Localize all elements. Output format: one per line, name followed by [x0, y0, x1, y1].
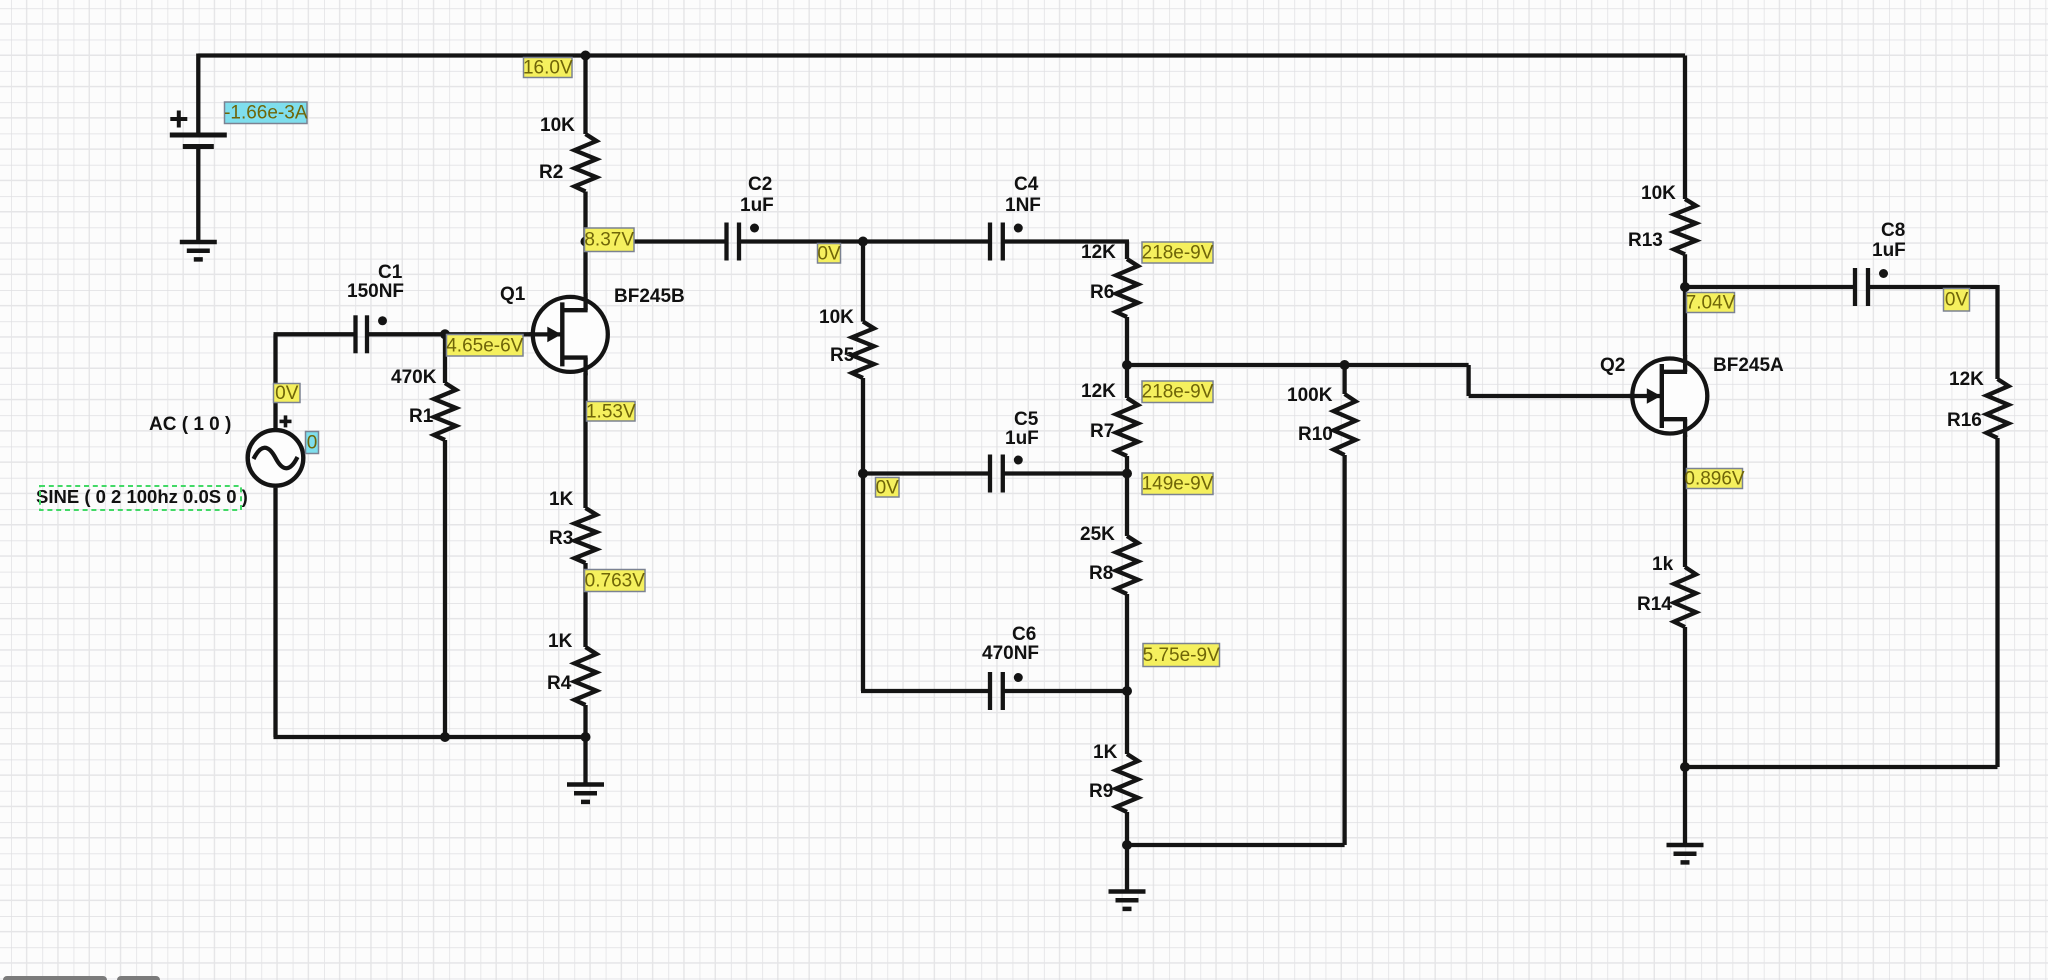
- resistor R1: [434, 383, 456, 440]
- svg-text:BF245A: BF245A: [1713, 355, 1784, 376]
- capacitor C8: [1855, 268, 1888, 306]
- svg-text:10K: 10K: [540, 115, 575, 136]
- wire: gate node to R1: [443, 334, 447, 383]
- wire: C5 node to R8: [1125, 474, 1129, 537]
- resistor R10: [1334, 394, 1356, 455]
- voltage label 218e-9V (R7 top): [1142, 381, 1214, 403]
- svg-text:0V: 0V: [876, 477, 900, 498]
- svg-text:R2: R2: [539, 162, 563, 183]
- svg-text:1K: 1K: [549, 489, 574, 510]
- resistor R14: [1674, 567, 1696, 627]
- svg-text:C5: C5: [1014, 409, 1039, 430]
- label 100K: [1287, 385, 1333, 406]
- capacitor C5: [990, 455, 1023, 493]
- wire: R8 to C6 node: [1125, 594, 1129, 691]
- resistor R5: [852, 322, 874, 378]
- label 10K (R13): [1641, 183, 1676, 204]
- resistor R16: [1987, 379, 2009, 438]
- svg-text:R8: R8: [1089, 563, 1113, 584]
- svg-text:0V: 0V: [817, 243, 841, 264]
- wire: R3 to R4: [583, 563, 587, 647]
- label C2: [748, 174, 772, 195]
- label R9: [1089, 781, 1113, 802]
- resistor R3: [575, 508, 597, 563]
- wire: step down to Q2 gate row: [1466, 365, 1470, 396]
- label R1: [409, 406, 434, 427]
- node: R1 / bottom rail junction: [440, 732, 450, 742]
- svg-text:1uF: 1uF: [1872, 240, 1906, 261]
- label R6: [1090, 282, 1114, 303]
- svg-text:470K: 470K: [391, 367, 437, 388]
- ac source V2: [248, 415, 304, 485]
- svg-text:10K: 10K: [819, 307, 854, 328]
- ground (R14): [1667, 845, 1704, 862]
- node: R4 / bottom rail junction: [581, 732, 591, 742]
- svg-text:150NF: 150NF: [347, 281, 404, 302]
- wire: gate node to Q1 gate: [445, 332, 564, 336]
- label 10K (R2): [540, 115, 575, 136]
- label AC ( 1 0 ): [149, 414, 231, 435]
- wire: Q1 source to R3: [583, 373, 587, 508]
- svg-text:R7: R7: [1090, 421, 1114, 442]
- label C1: [378, 262, 403, 283]
- label Q2: [1600, 355, 1625, 376]
- capacitor C4: [990, 223, 1023, 261]
- wire: node to ground (right): [1683, 767, 1687, 845]
- node: R8/C6/R9 junction: [1122, 686, 1132, 696]
- svg-text:R4: R4: [547, 673, 572, 694]
- wire: C2 to 0V node: [739, 239, 863, 243]
- node: R10 top junction: [1340, 360, 1350, 370]
- svg-text:1uF: 1uF: [1005, 428, 1039, 449]
- voltage label 5.75e-9V: [1143, 644, 1220, 667]
- node: R13/C8/drain junction: [1680, 282, 1690, 292]
- label C6: [1012, 624, 1036, 645]
- voltage label 149e-9V: [1142, 473, 1214, 495]
- label R2: [539, 162, 563, 183]
- svg-text:R3: R3: [549, 528, 573, 549]
- svg-text:C1: C1: [378, 262, 403, 283]
- svg-text:12K: 12K: [1081, 381, 1116, 402]
- svg-text:5.75e-9V: 5.75e-9V: [1143, 645, 1220, 666]
- wire: 8.37V node to C2: [586, 239, 727, 243]
- svg-text:12K: 12K: [1081, 242, 1116, 263]
- svg-text:1K: 1K: [548, 631, 573, 652]
- wire: C5 left lead: [863, 471, 990, 475]
- wire: node to R7: [1125, 365, 1129, 398]
- wire: R14 to bottom-right node: [1683, 627, 1687, 767]
- svg-text:-1.66e-3A: -1.66e-3A: [224, 103, 308, 124]
- label 470K: [391, 367, 437, 388]
- wire: bottom rail R9-R10: [1127, 455, 1345, 845]
- wire: bottom-left rail: [274, 735, 588, 739]
- label 470NF: [982, 643, 1039, 664]
- voltage label 0.763V: [585, 570, 646, 592]
- wire: battery negative to ground: [196, 147, 200, 243]
- label BF245A: [1713, 355, 1784, 376]
- wire: R13 to drain node: [1683, 254, 1687, 356]
- wire: R4 to bottom rail: [583, 705, 587, 737]
- wire: Q2 source to R14: [1683, 435, 1687, 567]
- wire: R6 to R6/R7 node: [1125, 317, 1129, 365]
- svg-text:25K: 25K: [1080, 524, 1115, 545]
- svg-text:10K: 10K: [1641, 183, 1676, 204]
- svg-text:1.53V: 1.53V: [586, 401, 636, 422]
- voltage label 8.37V: [584, 228, 634, 252]
- resistor R4: [575, 647, 597, 705]
- label R8: [1089, 563, 1113, 584]
- svg-text:1uF: 1uF: [740, 195, 774, 216]
- resistor R9: [1116, 754, 1138, 812]
- svg-text:R16: R16: [1947, 410, 1982, 431]
- svg-text:470NF: 470NF: [982, 643, 1039, 664]
- label 10K (R5): [819, 307, 854, 328]
- wire: battery to top rail: [196, 54, 200, 136]
- node: drain 8.37V junction: [581, 237, 591, 247]
- label 1K (R9): [1093, 742, 1118, 763]
- node: top rail / R2 junction: [581, 51, 591, 61]
- wire: R16 to bottom-right rail: [1683, 438, 1998, 767]
- transistor Q1 (BF245B JFET): [529, 293, 608, 375]
- wire: C6 to node: [1003, 689, 1127, 693]
- label 1K (R3): [549, 489, 574, 510]
- svg-text:C6: C6: [1012, 624, 1036, 645]
- label 1uF (C8): [1872, 240, 1906, 261]
- wire: AC source to bottom rail: [273, 488, 277, 737]
- svg-text:12K: 12K: [1949, 369, 1984, 390]
- wire: C5 to R7/R8 node: [1003, 471, 1127, 475]
- label R5: [830, 345, 855, 366]
- svg-text:R14: R14: [1637, 594, 1672, 615]
- wire: R7 to C5 node: [1125, 456, 1129, 474]
- svg-text:C2: C2: [748, 174, 772, 195]
- capacitor C1: [356, 315, 388, 353]
- label C4: [1014, 174, 1039, 195]
- wire: R2 to Q1 drain: [583, 192, 587, 295]
- wire: R9 to bottom node: [1125, 812, 1129, 845]
- svg-text:100K: 100K: [1287, 385, 1333, 406]
- node: C2/C4/R5 junction: [858, 237, 868, 247]
- wire: R6/R7 node to step: [1127, 363, 1469, 367]
- node: R7/C5/R8 junction: [1122, 469, 1132, 479]
- wire: C6 left branch: [861, 474, 990, 692]
- label R14: [1637, 594, 1672, 615]
- svg-text:R9: R9: [1089, 781, 1113, 802]
- voltage label 0V (source +): [274, 383, 301, 404]
- label R16: [1947, 410, 1982, 431]
- svg-text:1K: 1K: [1093, 742, 1118, 763]
- wire: bottom rail to ground: [583, 737, 587, 785]
- current label -1.66e-3A: [224, 102, 308, 124]
- ground (R9): [1109, 892, 1146, 909]
- svg-text:218e-9V: 218e-9V: [1142, 243, 1214, 264]
- svg-text:C4: C4: [1014, 174, 1039, 195]
- voltage label 4.65e-6V: [446, 335, 523, 357]
- capacitor C2: [727, 223, 760, 261]
- voltage label 1.53V: [586, 401, 636, 422]
- svg-text:1k: 1k: [1652, 554, 1674, 575]
- resistor R7: [1116, 398, 1138, 456]
- ground (battery): [180, 242, 217, 259]
- svg-text:0V: 0V: [1945, 290, 1969, 311]
- svg-text:1NF: 1NF: [1005, 195, 1041, 216]
- node: R9/R10 bottom junction: [1122, 840, 1132, 850]
- label R3: [549, 528, 573, 549]
- svg-text:C8: C8: [1881, 220, 1905, 241]
- svg-text:SINE ( 0 2 100hz 0.0S 0 ): SINE ( 0 2 100hz 0.0S 0 ): [36, 486, 248, 507]
- label 1uF (C5): [1005, 428, 1039, 449]
- voltage label 218e-9V (R6 top): [1142, 242, 1214, 264]
- label R4: [547, 673, 572, 694]
- label R10: [1298, 424, 1333, 445]
- svg-text:0.763V: 0.763V: [585, 571, 646, 592]
- svg-text:0V: 0V: [275, 383, 299, 404]
- voltage label 0V (C2 out): [817, 243, 841, 264]
- wire: C6 node to R9: [1125, 691, 1129, 754]
- label 25K: [1080, 524, 1115, 545]
- battery V1: [170, 111, 227, 147]
- resistor R6: [1116, 259, 1138, 317]
- svg-text:R10: R10: [1298, 424, 1333, 445]
- svg-text:0.896V: 0.896V: [1684, 469, 1745, 490]
- resistor R8: [1116, 536, 1138, 594]
- label 150NF: [347, 281, 404, 302]
- selection box (SINE params): [40, 486, 241, 510]
- label C5: [1014, 409, 1039, 430]
- wire: R1 to bottom rail: [443, 440, 447, 737]
- current label 0 (source): [306, 432, 319, 454]
- svg-text:R13: R13: [1628, 230, 1663, 251]
- voltage label 16.0V: [523, 58, 573, 79]
- capacitor C6: [990, 672, 1023, 710]
- voltage label 0V (C8 out): [1944, 289, 1970, 312]
- transistor Q2 (BF245A JFET): [1629, 355, 1708, 437]
- voltage label 7.04V: [1686, 293, 1736, 314]
- voltage label 0V (C5 left): [876, 477, 900, 498]
- wire: top rail to R2: [583, 56, 587, 135]
- label 12K (R16): [1949, 369, 1984, 390]
- wire: bottom node to ground: [1125, 845, 1129, 892]
- wire: C1 to gate node: [367, 332, 445, 336]
- voltage label 0.896V: [1684, 469, 1745, 490]
- wire: top supply rail: [198, 53, 1685, 57]
- ground (R4): [567, 785, 604, 802]
- label R13: [1628, 230, 1663, 251]
- svg-text:BF245B: BF245B: [614, 286, 685, 307]
- svg-text:7.04V: 7.04V: [1686, 293, 1736, 314]
- svg-text:0: 0: [307, 433, 318, 454]
- label SINE ( 0 2 100hz 0.0S 0 ): [36, 486, 248, 507]
- svg-text:R5: R5: [830, 345, 855, 366]
- svg-text:AC ( 1 0 ): AC ( 1 0 ): [149, 414, 231, 435]
- label 1K (R4): [548, 631, 573, 652]
- wire: AC source to C1: [274, 334, 354, 428]
- svg-text:149e-9V: 149e-9V: [1142, 474, 1214, 495]
- svg-text:218e-9V: 218e-9V: [1142, 382, 1214, 403]
- label 1k (R14): [1652, 554, 1674, 575]
- resistor R2: [575, 134, 597, 192]
- svg-text:Q2: Q2: [1600, 355, 1625, 376]
- label Q1: [500, 284, 526, 305]
- svg-text:16.0V: 16.0V: [523, 58, 573, 79]
- svg-text:4.65e-6V: 4.65e-6V: [446, 335, 523, 356]
- svg-text:R6: R6: [1090, 282, 1114, 303]
- wire: R5 to C5 node: [861, 378, 865, 474]
- wire: 0V node to C4: [863, 239, 990, 243]
- node: R6/R7/gate-wire junction: [1122, 360, 1132, 370]
- wire: 0V node to R5: [861, 242, 865, 322]
- wire: drain node to C8: [1685, 285, 1855, 289]
- node: R14/R16/ground junction: [1680, 762, 1690, 772]
- label BF245B: [614, 286, 685, 307]
- wire: gate row to Q2: [1469, 394, 1663, 398]
- svg-text:Q1: Q1: [500, 284, 526, 305]
- wire: C8 to R16: [1868, 285, 1998, 379]
- label 12K (R7): [1081, 381, 1116, 402]
- label C8: [1881, 220, 1905, 241]
- node: C1/R1/gate junction: [440, 329, 450, 339]
- resistor R13: [1674, 199, 1696, 254]
- node: R5/C5/C6 junction: [858, 469, 868, 479]
- label 12K (R6): [1081, 242, 1116, 263]
- wire: top rail to R13: [1683, 56, 1687, 200]
- label R7: [1090, 421, 1114, 442]
- svg-text:R1: R1: [409, 406, 434, 427]
- wire: R10 top lead: [1342, 365, 1346, 394]
- label 1NF: [1005, 195, 1041, 216]
- svg-text:8.37V: 8.37V: [584, 230, 634, 251]
- wire: C4 to R6: [1003, 242, 1129, 260]
- label 1uF (C2): [740, 195, 774, 216]
- ui fragment (bottom-left bars): [3, 976, 160, 980]
